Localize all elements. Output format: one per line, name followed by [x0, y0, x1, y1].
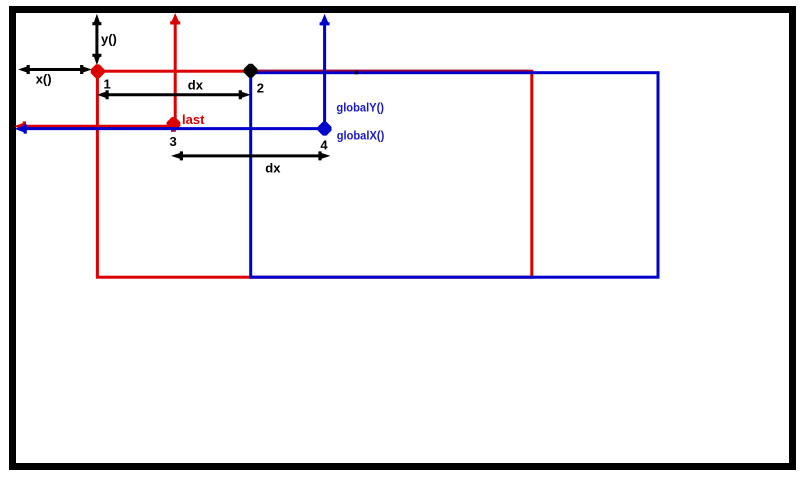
svg-text:y(): y() [101, 32, 117, 47]
widget rectangle (red) [97, 71, 531, 277]
overlap blend on top edge [252, 69, 530, 71]
svg-text:1: 1 [104, 77, 111, 92]
svg-text:3: 3 [170, 134, 177, 149]
node 3 tip below line [171, 130, 176, 132]
arrow red left [14, 121, 26, 131]
widget rectangle moved (blue) [251, 73, 658, 278]
svg-text:dx: dx [188, 78, 204, 93]
svg-text:2: 2 [257, 81, 264, 96]
arrow blue up [320, 14, 330, 26]
svg-text:4: 4 [320, 137, 328, 152]
measure arrow dx lower [171, 151, 330, 160]
node 2 (black diamond) [244, 64, 258, 78]
measure arrow y() [92, 14, 101, 65]
node 3 last (red diamond) [167, 117, 181, 131]
svg-text:x(): x() [36, 71, 52, 86]
wire red vertical from top [174, 23, 177, 124]
svg-text:dx: dx [265, 161, 281, 176]
svg-text:globalY(): globalY() [336, 101, 384, 115]
wire blue horizontal to point 4 [25, 127, 325, 130]
node 1 press point (red diamond) [91, 64, 105, 78]
arrow red up [170, 13, 180, 25]
arrow blue left [15, 124, 27, 133]
svg-text:last: last [182, 112, 205, 127]
svg-text:globalX(): globalX() [337, 129, 385, 143]
node 4 (blue diamond) [318, 122, 332, 136]
wire red horizontal to last [24, 125, 174, 128]
measure arrow x() [18, 65, 92, 74]
measure arrow dx upper [97, 90, 251, 99]
artifact dot on top edge [355, 71, 358, 75]
wire blue vertical from top [323, 24, 326, 129]
